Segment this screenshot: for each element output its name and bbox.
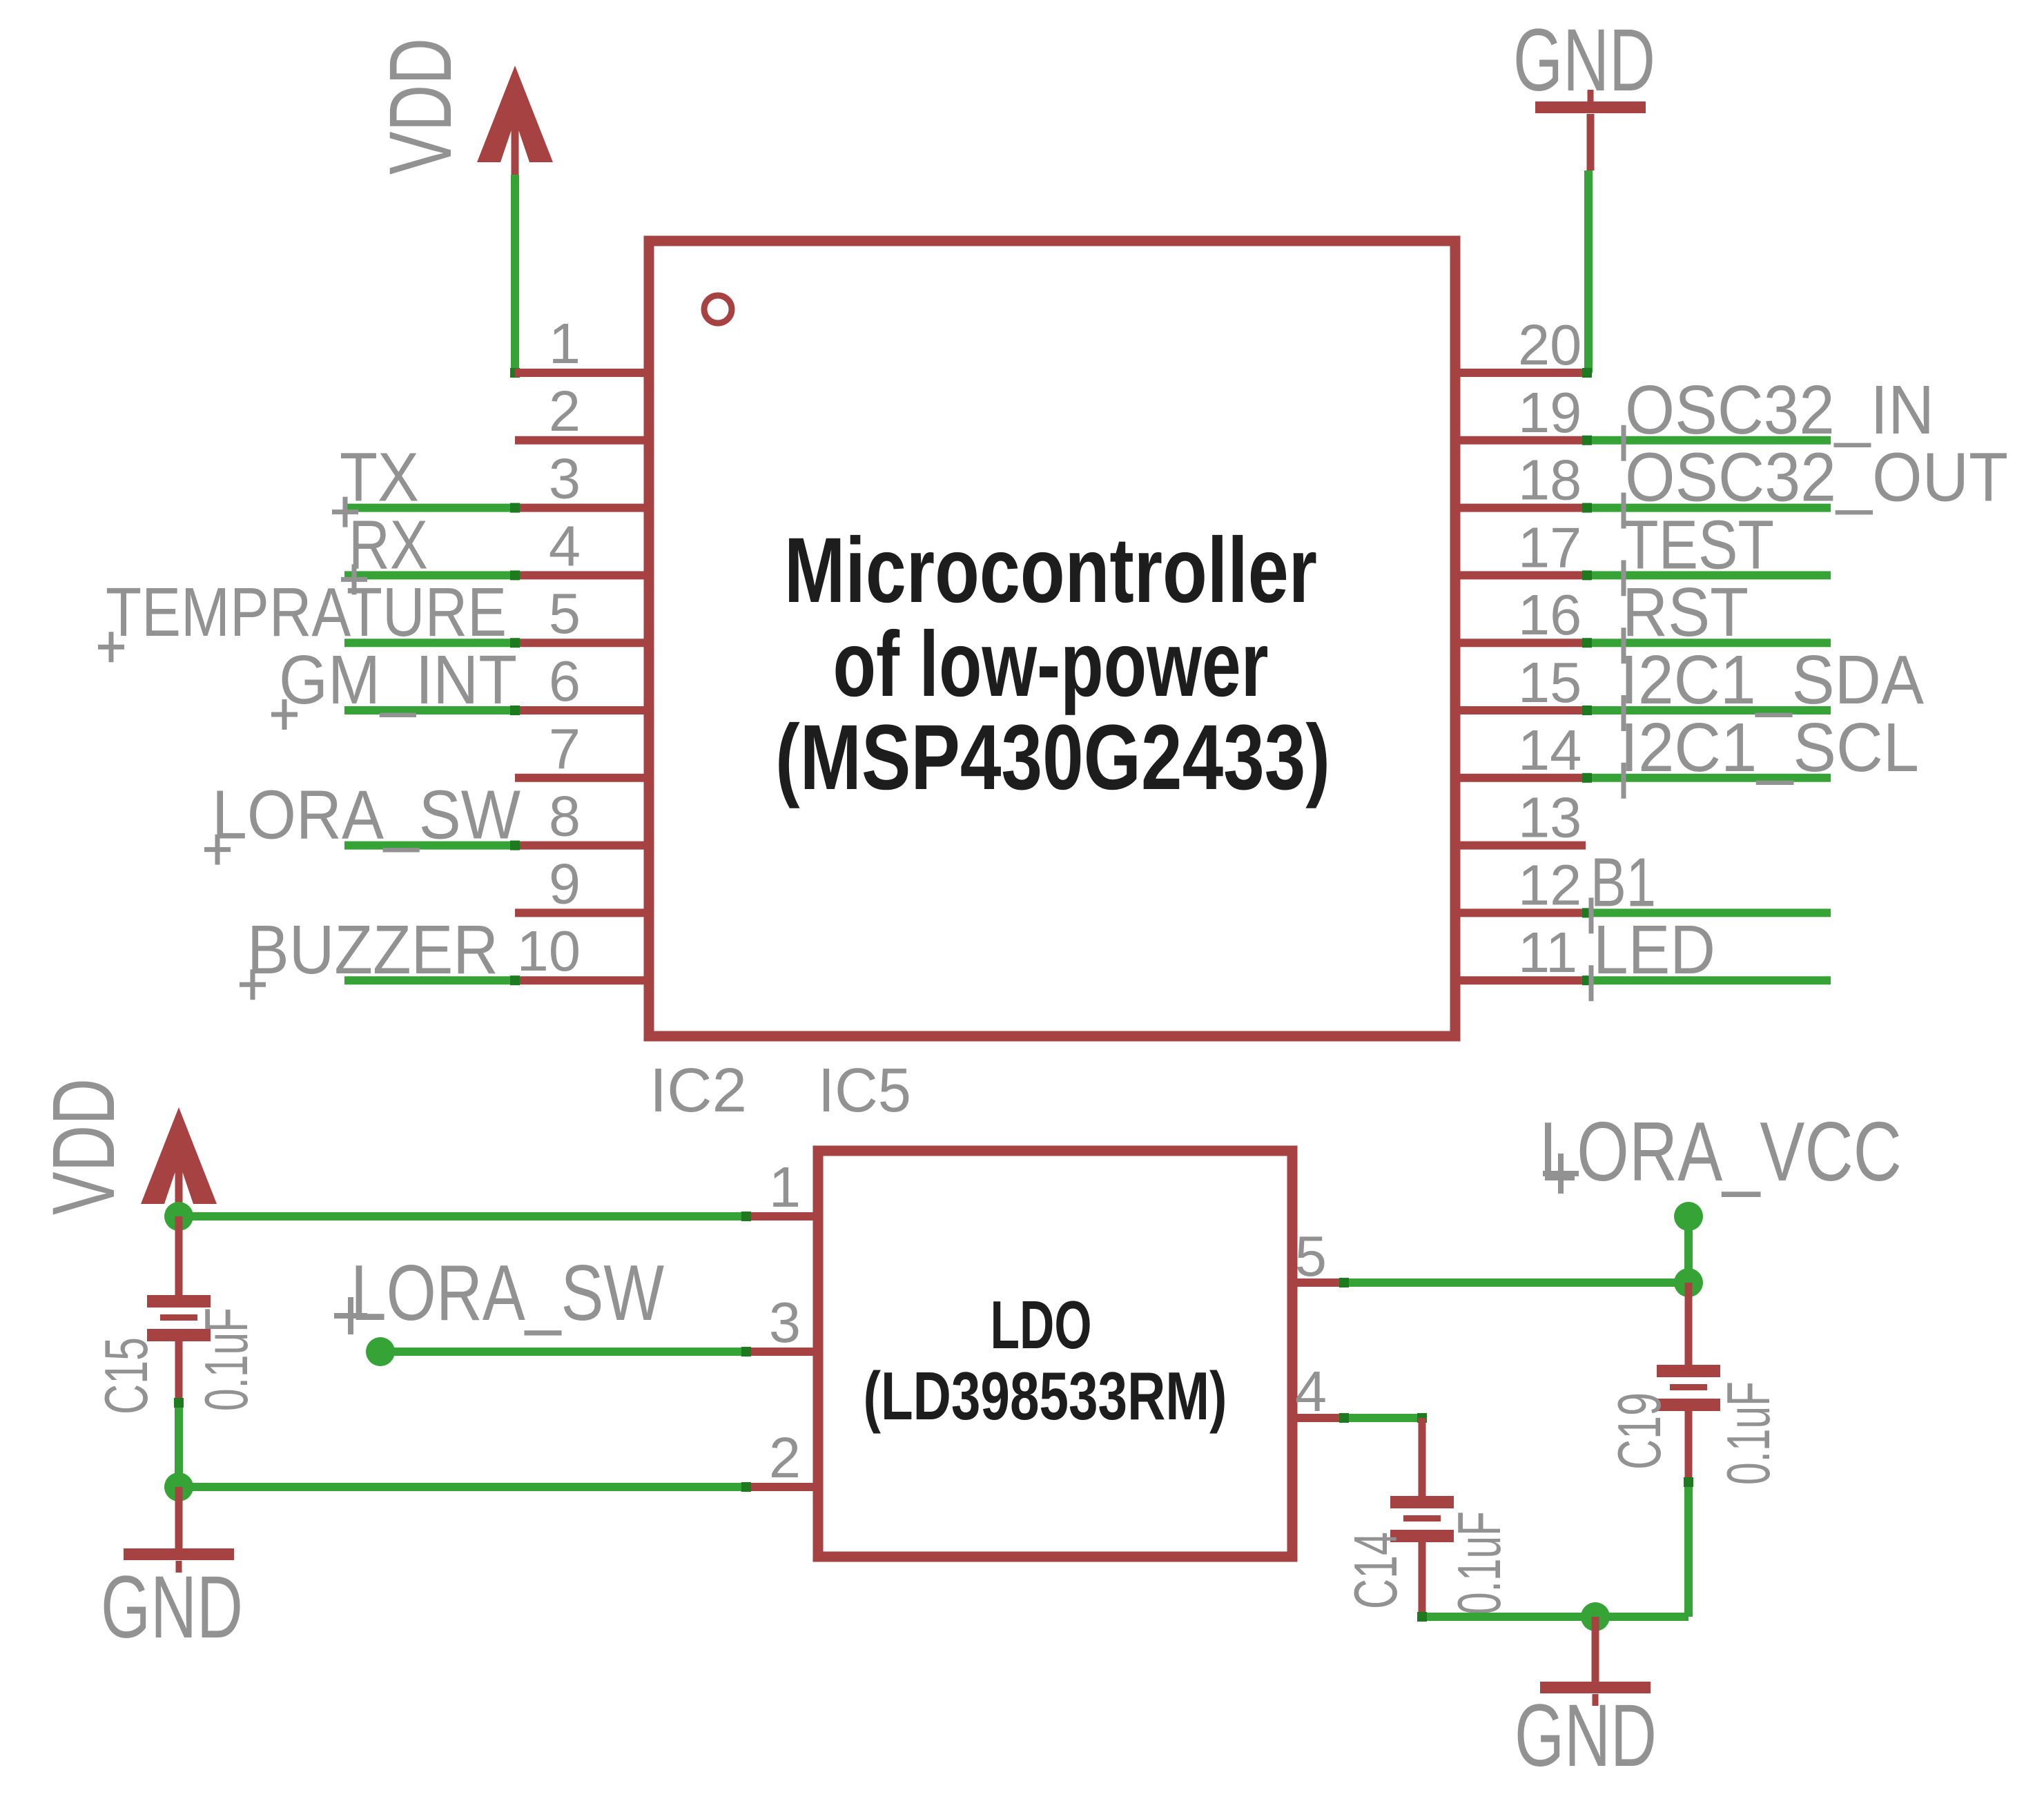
svg-text:10: 10 [517,919,581,983]
wire VDD to IC pin 1 [511,175,519,373]
wire GND stem (left) [175,1487,183,1549]
svg-text:15: 15 [1518,650,1581,714]
wire LED [1586,976,1831,984]
pin 18 [1455,504,1586,512]
pin 10 [515,976,649,984]
svg-text:13: 13 [1518,786,1581,850]
junction pin5 node [1674,1268,1703,1297]
svg-text:14: 14 [1518,718,1581,782]
wire TEMPRATURE [344,639,515,647]
pin 11 [1455,976,1586,984]
junction pin1/wire [510,368,520,378]
wire LORA_SW to LDO pin 3 [380,1348,745,1356]
LDO pin 1 [745,1212,818,1221]
svg-text:0.1uF: 0.1uF [192,1307,260,1411]
pin 12 [1455,908,1586,917]
svg-text:IC5: IC5 [818,1056,911,1125]
svg-text:Microcontroller: Microcontroller [784,519,1317,622]
wire LORA_VCC down [1684,1216,1693,1283]
svg-text:11: 11 [1518,920,1577,984]
svg-text:OSC32_OUT: OSC32_OUT [1625,439,2008,516]
svg-text:C19: C19 [1605,1392,1673,1470]
LDO pin 3 [745,1348,818,1356]
svg-text:5: 5 [1295,1224,1327,1288]
wire I2C1_SCL [1586,774,1831,782]
svg-text:C14: C14 [1341,1532,1410,1609]
svg-text:B1: B1 [1590,844,1656,921]
junction GND node (left) [164,1472,193,1501]
svg-text:6: 6 [549,649,581,713]
capacitor C19 [1657,1365,1720,1411]
svg-text:19: 19 [1518,380,1581,445]
svg-text:LORA_SW: LORA_SW [351,1249,664,1337]
svg-text:4: 4 [1295,1359,1327,1423]
pin 3 [515,504,649,512]
pin 17 [1455,571,1586,579]
pin 13 [1455,842,1586,850]
svg-text:0.1uF: 0.1uF [1714,1381,1782,1485]
capacitor C14 lead bottom [1419,1542,1426,1617]
svg-text:VDD: VDD [371,38,470,175]
junction VDD node [164,1202,193,1231]
svg-text:GND: GND [101,1558,243,1657]
pin-1 indicator circle [704,295,732,323]
pin 8 [515,842,649,850]
ground GND (top) [1535,101,1646,113]
wire LDO pin 5 to LORA_VCC [1343,1278,1688,1287]
svg-text:I2C1_SCL: I2C1_SCL [1620,709,1919,786]
wire C14 to C19 bottom rail [1422,1613,1688,1621]
junction LORA_SW node [366,1337,395,1366]
svg-text:2: 2 [769,1426,801,1490]
pin 6 [515,706,649,714]
LDO pin 2 [745,1483,818,1491]
wire B1 [1586,908,1831,917]
LDO pin 5 [1292,1278,1343,1287]
svg-text:7: 7 [549,717,581,781]
svg-text:C15: C15 [92,1337,160,1414]
wire RX [344,571,515,579]
svg-text:8: 8 [549,784,581,848]
wire OSC32_IN [1586,436,1831,445]
wire TX [344,504,515,512]
svg-text:RST: RST [1622,574,1749,651]
svg-text:GM_INT: GM_INT [279,641,517,719]
wire RST [1586,639,1831,647]
wire GND rail to LDO pin 2 [179,1483,745,1491]
capacitor C14 lead top [1419,1418,1426,1496]
svg-text:GND: GND [1515,1686,1657,1785]
wire IC pin 20 to GND [1584,171,1593,373]
svg-text:of low-power: of low-power [833,613,1269,716]
power flag VDD (bottom) [141,1107,217,1218]
svg-text:3: 3 [769,1290,801,1354]
svg-text:GND: GND [1513,11,1655,110]
pin 19 [1455,436,1586,445]
svg-text:9: 9 [549,851,581,915]
wire LORA_SW [344,842,515,850]
capacitor C14 [1390,1496,1454,1542]
svg-text:5: 5 [549,581,581,645]
capacitor C19 lead bottom [1685,1410,1693,1481]
wire BUZZER [344,976,515,984]
pin 7 [515,774,649,782]
wire TEST [1586,571,1831,579]
svg-text:TEMPRATURE: TEMPRATURE [106,574,507,651]
svg-text:17: 17 [1518,515,1581,579]
junction LORA_VCC node [1674,1202,1703,1231]
wire GND stem (right) [1592,1617,1599,1682]
wire I2C1_SDA [1586,706,1831,714]
svg-text:LORA_VCC: LORA_VCC [1539,1105,1902,1198]
svg-text:(LD398533RM): (LD398533RM) [864,1358,1227,1434]
svg-text:(MSP430G2433): (MSP430G2433) [775,706,1330,809]
svg-text:I2C1_SDA: I2C1_SDA [1620,641,1924,719]
svg-text:1: 1 [549,311,581,376]
pin 2 [515,436,649,445]
svg-text:3: 3 [549,447,581,511]
svg-text:TX: TX [340,439,419,516]
pin 16 [1455,639,1586,647]
ground GND (bottom right) [1540,1682,1651,1693]
svg-text:OSC32_IN: OSC32_IN [1625,371,1934,449]
wire OSC32_OUT [1586,504,1831,512]
svg-text:0.1uF: 0.1uF [1445,1511,1513,1615]
pin 4 [515,571,649,579]
svg-text:2: 2 [549,379,581,443]
svg-text:18: 18 [1518,448,1581,512]
wire GM_INT [344,706,515,714]
pin 9 [515,908,649,917]
svg-text:TEST: TEST [1622,506,1774,583]
junction GND node (right) [1581,1602,1610,1631]
svg-text:16: 16 [1518,583,1581,647]
svg-text:LDO: LDO [991,1287,1092,1363]
pin 14 [1455,774,1586,782]
microcontroller IC2 body [649,241,1455,1036]
pin 1 [515,369,649,377]
svg-text:12: 12 [1518,853,1581,917]
svg-text:VDD: VDD [35,1078,133,1215]
capacitor C19 lead top [1685,1283,1693,1365]
svg-text:4: 4 [549,514,581,578]
svg-text:LORA_SW: LORA_SW [212,777,521,854]
pin 20 [1455,369,1586,377]
LDO pin 4 [1292,1414,1343,1422]
svg-text:LED: LED [1593,911,1715,989]
pin 5 [515,639,649,647]
ground GND (bottom left) [124,1548,234,1560]
svg-text:BUZZER: BUZZER [247,911,498,989]
svg-text:1: 1 [769,1155,801,1219]
capacitor C15 lead bottom [175,1341,183,1401]
pin 15 [1455,706,1586,714]
wire VDD to LDO pin 1 [179,1212,745,1221]
LDO IC body [818,1151,1292,1557]
svg-text:RX: RX [349,506,428,583]
svg-text:20: 20 [1518,313,1581,377]
capacitor C15 lead top [175,1216,183,1296]
power flag VDD (top) [477,66,553,176]
wire LDO pin 4 corner [1343,1414,1422,1422]
capacitor C15 [147,1295,211,1341]
svg-text:IC2: IC2 [650,1056,747,1125]
